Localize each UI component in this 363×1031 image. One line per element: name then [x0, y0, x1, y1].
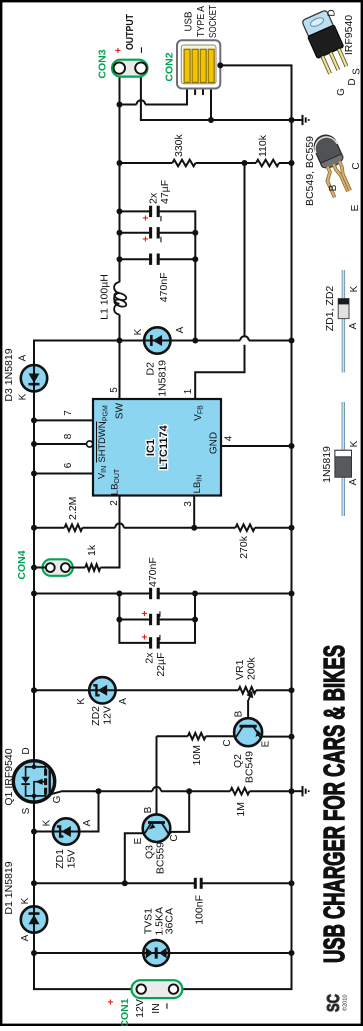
- svg-text:ZD1: ZD1: [54, 849, 66, 869]
- svg-text:B: B: [234, 710, 245, 717]
- diode D2 1N5819 catch diode: [120, 340, 145, 342]
- svg-text:E: E: [261, 740, 272, 747]
- junction divider top: [117, 160, 123, 166]
- junction LBIN: [191, 525, 197, 531]
- svg-text:330k: 330k: [173, 133, 185, 157]
- svg-text:C: C: [351, 162, 362, 169]
- wire output cap bottom bus: [158, 211, 195, 340]
- junction ZD2 top rail: [31, 687, 37, 693]
- junction D2 cap bus: [192, 338, 198, 344]
- junction feedback tap: [242, 160, 248, 166]
- op-amp IC1 LTC1174 regulator box: [93, 399, 221, 496]
- svg-text:36CA: 36CA: [164, 908, 176, 934]
- wire bypass bottom bus: [158, 594, 195, 643]
- svg-text:7: 7: [63, 410, 74, 416]
- junction 100nF / ground rail: [289, 880, 295, 886]
- svg-text:A: A: [175, 326, 186, 333]
- svg-text:IC1: IC1: [145, 439, 157, 456]
- svg-text:1N5819: 1N5819: [321, 446, 333, 483]
- junction D2 ground rail: [289, 338, 295, 344]
- svg-text:4: 4: [224, 435, 235, 441]
- svg-text:SHTDWN: SHTDWN: [97, 422, 107, 463]
- junction 47uF2 top: [117, 208, 123, 214]
- svg-text:+: +: [106, 999, 117, 1005]
- connector CON3 OUTPUT: [112, 60, 148, 77]
- junction bypass bottom bus: [192, 591, 198, 597]
- svg-text:D1 1N5819: D1 1N5819: [3, 861, 15, 914]
- svg-text:SC: SC: [323, 994, 343, 1012]
- package drawing 1N5819 axial diode: [342, 402, 345, 516]
- svg-text:470nF: 470nF: [147, 557, 159, 587]
- junction USB ground lead: [208, 117, 214, 123]
- svg-text:+: +: [114, 47, 125, 53]
- svg-text:C: C: [169, 834, 180, 841]
- junction gate/Q3 collector: [186, 788, 192, 794]
- svg-text:+: +: [140, 610, 151, 616]
- ground symbol at 1M: [292, 786, 309, 796]
- Q3 internal: [148, 821, 165, 824]
- wire Q3 emitter to input node: [125, 833, 145, 883]
- junction +5V to CON3: [117, 102, 123, 108]
- ground symbol at output: [292, 115, 309, 125]
- svg-text:6: 6: [63, 462, 74, 468]
- svg-text:B: B: [143, 806, 154, 813]
- Q2 internal: [240, 725, 257, 728]
- capacitor 22uF #2: [149, 637, 152, 648]
- svg-text:1M: 1M: [235, 802, 247, 817]
- svg-text:LTC1174: LTC1174: [158, 424, 170, 469]
- svg-text:–: –: [155, 215, 167, 221]
- svg-text:–: –: [155, 236, 167, 242]
- diode D1 1N5819 (series input): [21, 906, 47, 932]
- capacitor 47uF #2: [120, 210, 151, 212]
- svg-text:USB: USB: [183, 12, 195, 32]
- svg-text:270k: 270k: [238, 535, 250, 559]
- junction divider bottom rail: [289, 160, 295, 166]
- wire D2 anode to ground: [171, 340, 241, 342]
- wire VBUS drop to USB: [120, 104, 137, 106]
- svg-text:+: +: [141, 236, 152, 242]
- svg-text:A: A: [118, 698, 129, 705]
- wire 100nF branch: [34, 882, 195, 884]
- svg-text:110k: 110k: [257, 134, 269, 157]
- wire Q3 collector to gate line: [169, 791, 190, 834]
- resistor 330k / 110k feedback divider: [120, 162, 173, 164]
- junction bypass top bus: [116, 591, 122, 597]
- svg-text:G: G: [336, 88, 347, 96]
- junction ZD1 top rail: [31, 829, 37, 835]
- svg-text:8: 8: [63, 433, 74, 439]
- svg-text:K: K: [42, 819, 53, 826]
- resistor 2.2M and LBIN line: [34, 527, 65, 529]
- USB contact bars: [184, 49, 190, 82]
- junction 47uF1 top: [117, 230, 123, 236]
- wire +5V output line (SW pin to CON3+): [119, 315, 121, 400]
- junction CON3- ground rail: [289, 117, 295, 123]
- svg-text:L1 100µH: L1 100µH: [99, 274, 111, 320]
- wire ground rail: [174, 65, 292, 989]
- transistor Q3 BC559 PNP: [143, 814, 171, 842]
- svg-text:+: +: [140, 634, 151, 640]
- svg-text:BC549: BC549: [244, 751, 256, 783]
- junction 1M ground: [289, 788, 295, 794]
- package drawing IRF9540 TO-220: [301, 9, 352, 76]
- junction output cap bus: [192, 256, 198, 262]
- junction 270k ground: [289, 525, 295, 531]
- svg-text:10M: 10M: [191, 745, 203, 765]
- capacitor 100nF input bypass: [194, 878, 197, 889]
- wire Q2 emitter to ground: [260, 736, 291, 739]
- svg-text:GND: GND: [209, 432, 220, 454]
- junction Q2 emitter ground rail: [289, 734, 295, 740]
- Q1 internal symbol: [26, 761, 46, 802]
- svg-text:–: –: [154, 611, 166, 617]
- capacitor 470nF input bypass: [149, 588, 152, 599]
- junction gate/ZD1: [96, 788, 102, 794]
- wire CON3 minus line: [141, 74, 292, 120]
- svg-text:D: D: [21, 747, 32, 754]
- junction 2.2M rail: [31, 525, 37, 531]
- VR1 wiper arrow: [248, 696, 250, 701]
- svg-text:K: K: [349, 440, 360, 447]
- IC1 pin 6 VIN stub: [34, 473, 93, 475]
- svg-text:1N5819: 1N5819: [157, 360, 169, 397]
- capacitor 22uF #1: [149, 614, 152, 625]
- wire LBIN pin 3 stub: [193, 496, 195, 528]
- transistor Q1 IRF9540 P-channel MOSFET: [13, 761, 54, 802]
- svg-text:–: –: [161, 1003, 173, 1009]
- svg-text:–: –: [136, 47, 148, 53]
- svg-text:K: K: [133, 328, 144, 335]
- resistor 270k: [236, 524, 255, 531]
- wire 1k to LBOUT pin 2: [100, 496, 119, 568]
- wire Q2 collector: [235, 736, 236, 738]
- svg-text:K: K: [349, 285, 360, 292]
- connector CON2 USB socket: [177, 40, 220, 88]
- wire Q1 gate line to 1M and ground: [51, 791, 153, 794]
- svg-text:C: C: [222, 739, 233, 746]
- zener ZD1 15V gate protection: [34, 831, 53, 833]
- inductor L1 100uH: [114, 282, 119, 314]
- svg-text:CON1: CON1: [119, 998, 131, 1026]
- wire VFB feedback line: [244, 163, 246, 336]
- svg-text:G: G: [52, 795, 63, 803]
- trimpot VR1 200k: [238, 687, 256, 694]
- Q3 base wire to 10M corner: [156, 736, 158, 814]
- svg-text:D: D: [327, 9, 338, 16]
- junction bypass top rail: [31, 591, 37, 597]
- capacitor 47uF #1: [120, 232, 151, 234]
- svg-text:K: K: [20, 897, 31, 904]
- wire +12V top rail: [34, 933, 141, 989]
- svg-text:B: B: [328, 184, 339, 191]
- svg-text:15V: 15V: [66, 850, 78, 869]
- svg-text:IRF9540: IRF9540: [343, 15, 355, 55]
- svg-text:D3 1N5819: D3 1N5819: [3, 348, 15, 401]
- svg-text:Q2: Q2: [232, 754, 244, 768]
- svg-text:1: 1: [183, 388, 194, 394]
- svg-text:SOCKET: SOCKET: [207, 5, 219, 38]
- svg-text:A: A: [348, 478, 359, 485]
- junction TVS1 top rail: [31, 950, 37, 956]
- zener ZD2 12V and trimpot VR1 chain: [34, 689, 89, 691]
- junction CON4 rail: [31, 565, 37, 571]
- svg-text:3: 3: [183, 501, 194, 507]
- svg-text:E: E: [350, 204, 361, 211]
- svg-text:A: A: [82, 819, 93, 826]
- svg-text:D: D: [347, 78, 358, 85]
- svg-text:OUTPUT: OUTPUT: [124, 14, 136, 50]
- svg-text:1k: 1k: [86, 544, 98, 556]
- wire bypass top bus: [119, 594, 150, 643]
- svg-text:12V: 12V: [134, 999, 146, 1018]
- svg-text:VR1: VR1: [234, 659, 246, 680]
- IC1 pin 4 GND stub: [221, 445, 292, 447]
- zener ZD2 12V: [89, 677, 115, 703]
- svg-text:K: K: [18, 393, 29, 400]
- junction bypass ground rail: [289, 591, 295, 597]
- svg-text:BC549, BC559: BC549, BC559: [304, 136, 316, 206]
- svg-text:A: A: [20, 934, 31, 941]
- svg-text:A: A: [348, 322, 359, 329]
- resistor 10M and wire to Q2 collector: [157, 735, 188, 737]
- wire CON4 to rail: [34, 567, 46, 569]
- svg-text:©2010: ©2010: [342, 995, 349, 1012]
- svg-text:A: A: [18, 354, 29, 361]
- junction Q3 emitter node: [122, 880, 128, 886]
- diode D3 1N5819 (rail to SW clamp): [21, 365, 47, 391]
- wire VIN bypass branch: [34, 593, 151, 595]
- svg-text:5: 5: [109, 387, 120, 393]
- svg-text:47µF: 47µF: [159, 180, 171, 204]
- node SW junction: [117, 338, 123, 344]
- IC1 pin 7 IPGM stub: [34, 419, 93, 421]
- svg-text:E: E: [133, 837, 144, 844]
- svg-text:2: 2: [109, 500, 120, 506]
- IC1 pin 8 SHTDWN stub with bubble: [34, 443, 86, 445]
- Q1 dots: [32, 794, 37, 799]
- svg-text:Q1 IRF9540: Q1 IRF9540: [3, 748, 15, 805]
- svg-text:ZD2: ZD2: [90, 706, 102, 726]
- svg-text:TYPE A: TYPE A: [195, 6, 207, 37]
- svg-text:CON3: CON3: [97, 49, 109, 78]
- junction 100nF branch top rail: [31, 880, 37, 886]
- svg-text:BC559: BC559: [155, 842, 167, 874]
- resistor 1M: [230, 788, 249, 795]
- svg-text:200k: 200k: [246, 656, 258, 680]
- svg-text:22µF: 22µF: [155, 653, 167, 677]
- svg-text:2x: 2x: [144, 652, 156, 664]
- svg-text:12V: 12V: [102, 706, 114, 725]
- svg-text:D2: D2: [145, 362, 157, 376]
- svg-text:ZD1, ZD2: ZD1, ZD2: [324, 286, 336, 332]
- wire USB lead 4: [210, 83, 212, 121]
- junction USB shell to ground: [217, 62, 223, 68]
- svg-text:K: K: [76, 698, 87, 705]
- wire USB leads 2 3 stubs: [194, 83, 196, 96]
- svg-text:CON4: CON4: [16, 550, 28, 579]
- TVS1 transient suppressor 1.5KA36CA: [34, 952, 144, 954]
- svg-text:+: +: [141, 215, 152, 221]
- connector CON4: [43, 559, 73, 576]
- package drawing BC549 BC559 TO-92: [310, 132, 357, 198]
- svg-text:2.2M: 2.2M: [67, 497, 79, 520]
- svg-text:470nF: 470nF: [158, 272, 170, 302]
- package drawing ZD1 ZD2 axial diode: [342, 270, 345, 372]
- svg-text:CON2: CON2: [164, 52, 176, 81]
- svg-text:S: S: [352, 68, 363, 75]
- resistor 1k: [70, 567, 85, 569]
- connector CON1 (12V IN): [132, 980, 183, 998]
- transistor Q2 BC549 NPN: [234, 718, 262, 746]
- svg-text:S: S: [21, 807, 32, 814]
- svg-text:100nF: 100nF: [194, 895, 206, 925]
- svg-text:USB CHARGER FOR CARS & BIKES: USB CHARGER FOR CARS & BIKES: [319, 645, 351, 963]
- svg-text:SW: SW: [115, 402, 126, 419]
- svg-text:–: –: [154, 634, 166, 640]
- svg-text:2x: 2x: [148, 192, 160, 204]
- capacitor 470nF output: [120, 258, 151, 260]
- junction CON1- / TVS1 on ground rail: [289, 950, 295, 956]
- junction 470nF output top: [117, 256, 123, 262]
- junction VR1 ground rail: [289, 687, 295, 693]
- wire Q2 base to VR1 wiper: [247, 700, 249, 718]
